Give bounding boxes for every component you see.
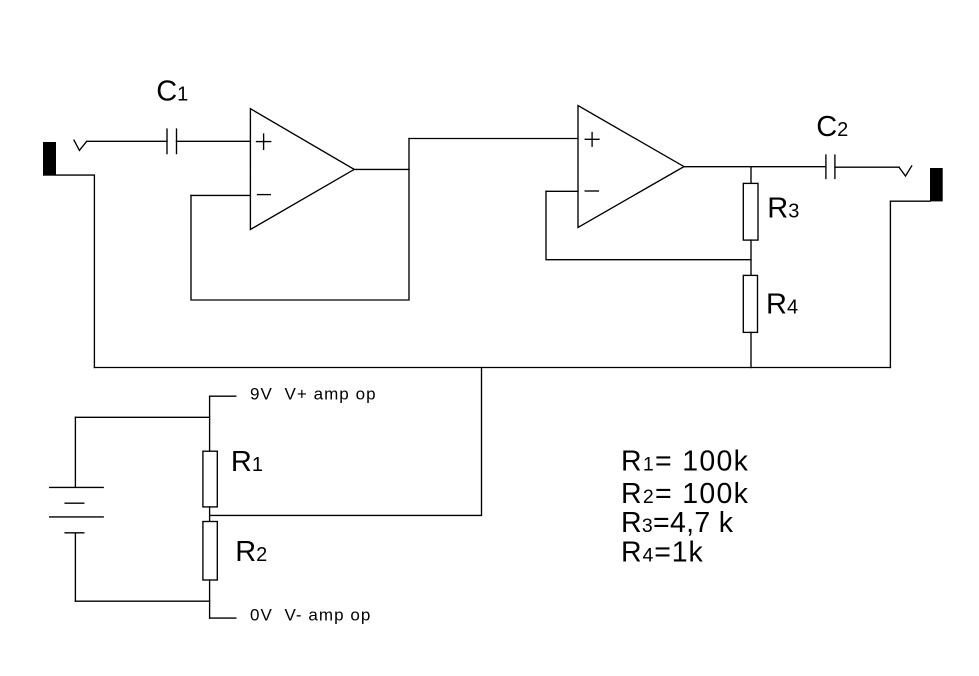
wire input to C1 — [87, 140, 167, 142]
op-amp U2 plus marking — [585, 133, 599, 147]
op-amp U1 — [250, 109, 354, 230]
resistor R1 — [203, 451, 217, 507]
op-amp U2 minus marking — [585, 190, 598, 192]
battery BT1 — [50, 417, 103, 601]
wire R4 to ground bus — [750, 332, 752, 367]
wire output node to R3 — [750, 167, 752, 184]
node 0V stub — [210, 617, 236, 619]
wire U1 feedback loop — [191, 139, 409, 301]
svg-text:R2= 100k: R2= 100k — [621, 478, 749, 510]
resistor R3 — [743, 183, 758, 240]
svg-text:R1= 100k: R1= 100k — [621, 446, 749, 478]
wire U2 feedback to R3/R4 node — [546, 191, 751, 259]
wire J1 sleeve to bus — [56, 175, 94, 367]
wire J2 sleeve to bus — [890, 201, 930, 367]
input contact tick — [74, 140, 87, 150]
input jack J1 — [43, 142, 56, 176]
wire bus to R1/R2 midpoint — [210, 368, 482, 516]
resistor R2 — [203, 522, 217, 581]
wire U1 output to U2 + input — [409, 138, 578, 140]
wire battery - to divider — [75, 600, 209, 602]
op-amp U1 plus marking — [257, 134, 271, 149]
output jack J2 — [930, 168, 943, 201]
svg-text:9V V+ amp op: 9V V+ amp op — [250, 385, 377, 404]
wire U1 output — [354, 168, 409, 170]
op-amp U2 — [578, 106, 684, 228]
wire ground bus — [94, 367, 890, 369]
wire C1 to U1 + input — [177, 140, 251, 142]
wire R2 to 0V rail — [209, 580, 211, 618]
resistor R4 — [743, 275, 757, 332]
wire U2 inverting input — [546, 190, 578, 192]
wire 9V rail to R1 — [209, 396, 211, 451]
capacitor C1 — [167, 129, 177, 154]
wire C2 to output contact — [835, 166, 899, 168]
svg-text:R3=4,7 k: R3=4,7 k — [621, 507, 734, 539]
capacitor C2 — [826, 155, 835, 179]
wire U2 output to C2 — [684, 166, 826, 168]
svg-text:0V V- amp op: 0V V- amp op — [250, 606, 371, 625]
wire R1 to R2 — [209, 507, 211, 522]
node 9V stub — [210, 395, 236, 397]
svg-text:R4=1k: R4=1k — [621, 537, 704, 569]
wire U1 inverting input — [191, 194, 250, 196]
output contact tick — [899, 166, 912, 176]
wire R3 to R4 — [750, 240, 752, 275]
op-amp U1 minus marking — [258, 194, 271, 196]
wire battery + to divider — [75, 416, 209, 418]
